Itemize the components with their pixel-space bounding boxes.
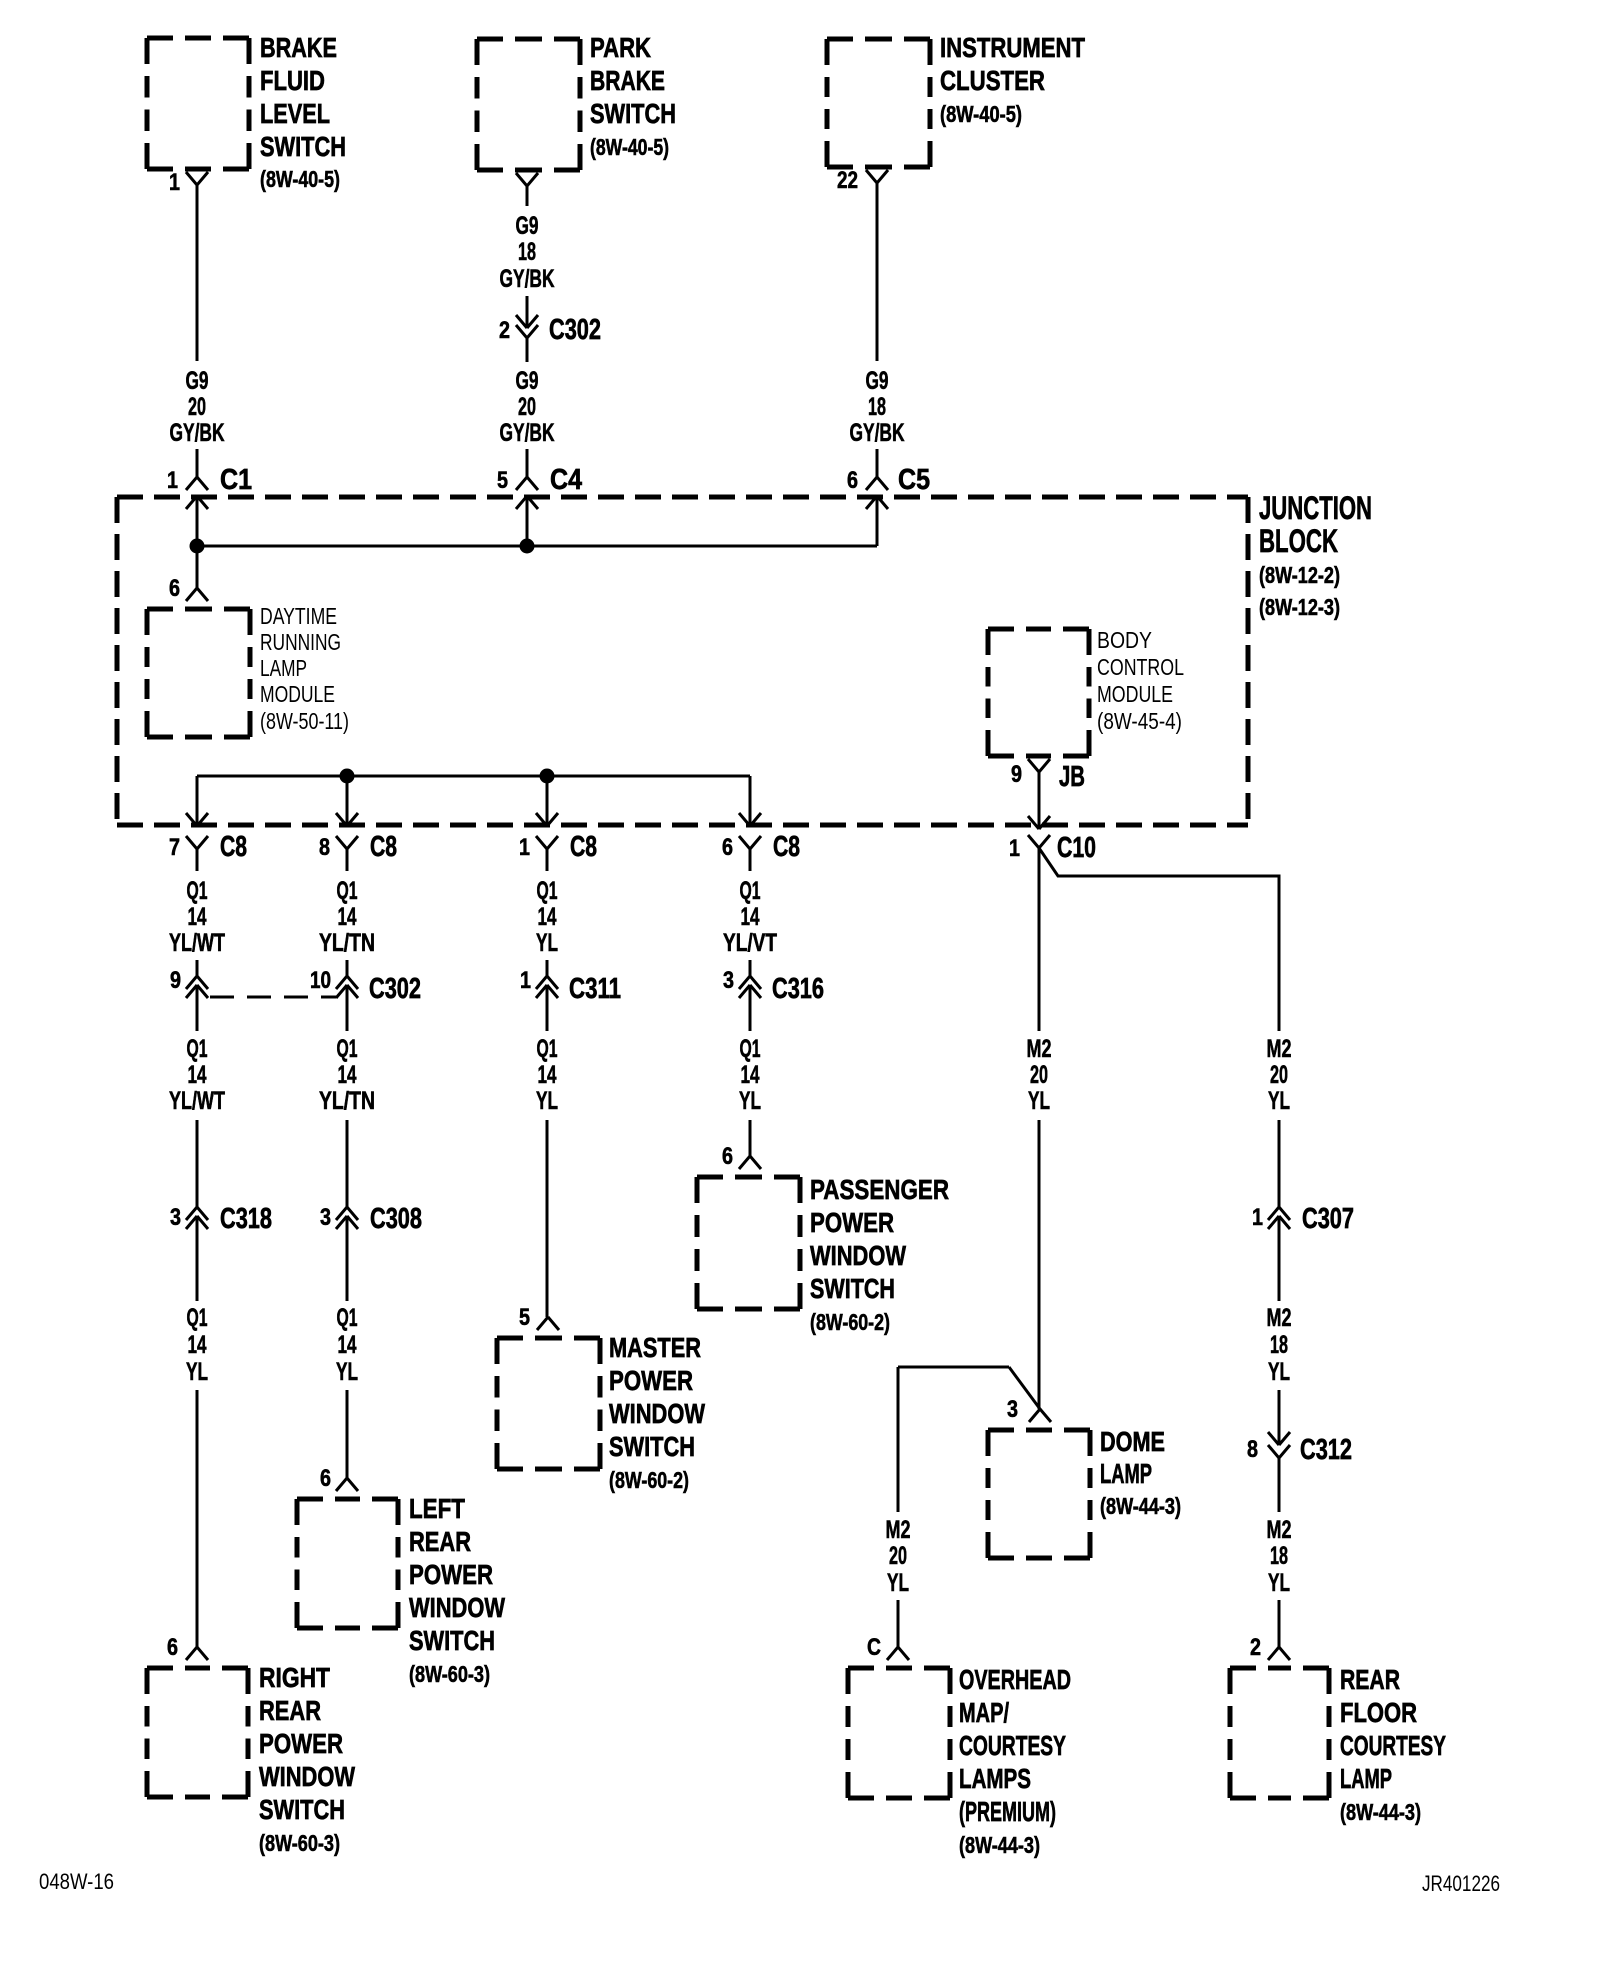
connector pin 2 of rear floor courtesy lamp: [1250, 1634, 1290, 1661]
svg-text:(8W-40-5): (8W-40-5): [260, 166, 340, 192]
label: body control module (8W-45-4): [1097, 627, 1184, 734]
wire: [346, 1120, 349, 1207]
wire: [546, 960, 549, 976]
svg-text:YL: YL: [536, 929, 558, 957]
svg-text:REAR: REAR: [259, 1695, 321, 1726]
svg-text:1: 1: [167, 467, 178, 494]
box: brake fluid level switch: [147, 38, 249, 169]
svg-text:POWER: POWER: [609, 1365, 693, 1396]
svg-text:YL: YL: [336, 1358, 358, 1386]
svg-text:2: 2: [499, 317, 510, 344]
arrow out of junction block (C8 pin 1): [536, 813, 558, 826]
box: left rear power window switch: [297, 1499, 398, 1628]
svg-text:YL: YL: [887, 1569, 909, 1597]
svg-text:20: 20: [518, 393, 536, 421]
label: left rear power window switch (8W-60-3): [409, 1493, 505, 1687]
svg-text:Q1: Q1: [337, 877, 358, 905]
wire: [1278, 1390, 1281, 1445]
arrow into junction block bottom border: [1028, 816, 1050, 829]
wire: [749, 776, 752, 826]
connector C8 pin 1: [519, 831, 597, 863]
in-line connector C307 pin 1: [1252, 1203, 1354, 1235]
connector pin 3 of dome lamp: [1007, 1396, 1051, 1423]
svg-text:YL/VT: YL/VT: [723, 929, 777, 957]
svg-text:BRAKE: BRAKE: [590, 65, 665, 96]
wire: [196, 449, 199, 477]
svg-text:LEFT: LEFT: [409, 1493, 465, 1524]
svg-text:REAR: REAR: [1340, 1664, 1400, 1695]
svg-text:C: C: [867, 1634, 881, 1661]
svg-text:(8W-60-2): (8W-60-2): [609, 1467, 689, 1493]
in-line connector C302 pin 2: [499, 314, 601, 346]
wire: [196, 185, 199, 361]
wire: [196, 849, 199, 871]
junction dot: [340, 769, 355, 784]
wire: [1278, 1216, 1281, 1301]
branch wire to rear lamps: [1039, 848, 1279, 1031]
label: overhead map/courtesy lamps (premium) (8W-44-3): [959, 1664, 1071, 1858]
wire: [876, 183, 879, 361]
svg-text:5: 5: [519, 1304, 530, 1331]
page code 048W-16: [39, 1869, 114, 1894]
svg-text:SWITCH: SWITCH: [810, 1273, 895, 1304]
wire: [526, 296, 529, 328]
label: brake fluid level switch (8W-40-5): [260, 32, 346, 192]
svg-text:14: 14: [741, 903, 760, 931]
svg-text:C4: C4: [550, 464, 582, 496]
svg-text:9: 9: [1011, 761, 1022, 788]
svg-text:20: 20: [1030, 1061, 1048, 1089]
wire: [196, 1216, 199, 1301]
junction dot: [540, 769, 555, 784]
wire: [526, 186, 529, 206]
svg-text:M2: M2: [1267, 1035, 1292, 1063]
wire: [898, 1366, 1009, 1369]
label: right rear power window switch (8W-60-3): [259, 1662, 355, 1856]
box: dome lamp: [988, 1430, 1090, 1558]
wire: [1038, 1120, 1041, 1409]
connector C5 pin 6 (junction block): [847, 464, 930, 509]
svg-text:Q1: Q1: [740, 877, 761, 905]
svg-text:048W-16: 048W-16: [39, 1869, 114, 1894]
svg-text:POWER: POWER: [259, 1728, 343, 1759]
svg-text:YL: YL: [1268, 1358, 1290, 1386]
svg-text:YL: YL: [1268, 1569, 1290, 1597]
connector of park brake switch: [516, 173, 538, 186]
svg-text:G9: G9: [516, 367, 539, 395]
wire label Q1 14 YL: [536, 877, 558, 957]
in-line connector pin 9: [170, 967, 208, 998]
svg-text:MODULE: MODULE: [1097, 681, 1173, 707]
svg-text:M2: M2: [1267, 1516, 1292, 1544]
svg-text:BODY: BODY: [1097, 627, 1152, 653]
connector C8 pin 6: [722, 831, 800, 863]
svg-text:SWITCH: SWITCH: [260, 131, 346, 162]
svg-text:C8: C8: [570, 831, 597, 863]
wire: [196, 776, 199, 826]
svg-text:OVERHEAD: OVERHEAD: [959, 1664, 1071, 1695]
svg-text:14: 14: [538, 1061, 557, 1089]
svg-text:6: 6: [847, 467, 858, 494]
wire label M2 20 YL: [1267, 1035, 1292, 1115]
svg-text:Q1: Q1: [537, 877, 558, 905]
in-line connector C312 pin 8: [1247, 1432, 1352, 1466]
svg-text:M2: M2: [1267, 1304, 1292, 1332]
wire: [196, 546, 199, 588]
label: park brake switch (8W-40-5): [590, 32, 676, 160]
wire: [546, 776, 549, 826]
svg-text:PASSENGER: PASSENGER: [810, 1174, 949, 1205]
svg-text:8: 8: [1247, 1436, 1258, 1463]
wire: [196, 496, 199, 546]
svg-text:20: 20: [188, 393, 206, 421]
in-line connector C316 pin 3: [723, 967, 824, 1005]
svg-text:6: 6: [722, 1143, 733, 1170]
svg-text:WINDOW: WINDOW: [810, 1240, 906, 1271]
wire: [346, 1216, 349, 1301]
box: master power window switch: [497, 1338, 600, 1469]
wire: [749, 1120, 752, 1156]
junction dot: [520, 539, 535, 554]
wire: [346, 1390, 349, 1478]
wire: [196, 1390, 199, 1647]
label: dome lamp (8W-44-3): [1100, 1426, 1181, 1519]
svg-text:POWER: POWER: [810, 1207, 894, 1238]
wire: [1038, 848, 1041, 1031]
wire: [1278, 1120, 1281, 1207]
connector pin 1 of brake fluid level switch: [169, 169, 208, 196]
svg-text:SWITCH: SWITCH: [409, 1625, 495, 1656]
svg-text:6: 6: [167, 1634, 178, 1661]
svg-text:C308: C308: [370, 1203, 422, 1235]
svg-text:18: 18: [518, 238, 536, 266]
svg-text:(8W-60-3): (8W-60-3): [409, 1661, 490, 1687]
svg-text:C8: C8: [773, 831, 800, 863]
svg-text:YL: YL: [536, 1087, 558, 1115]
svg-text:WINDOW: WINDOW: [409, 1592, 505, 1623]
svg-text:2: 2: [1250, 1634, 1261, 1661]
wire label G9 18 GY/BK: [500, 212, 555, 293]
wire: [526, 496, 529, 546]
svg-text:FLOOR: FLOOR: [1340, 1697, 1417, 1728]
svg-text:14: 14: [338, 903, 357, 931]
svg-text:MAP/: MAP/: [959, 1697, 1009, 1728]
wire label M2 18 YL: [1267, 1516, 1292, 1597]
svg-text:YL: YL: [739, 1087, 761, 1115]
svg-text:C307: C307: [1302, 1203, 1354, 1235]
wire label Q1 14 YL/TN: [319, 1035, 375, 1115]
svg-text:(8W-60-2): (8W-60-2): [810, 1309, 890, 1335]
connector pin 6 of daytime running lamp module: [169, 575, 208, 602]
svg-text:1: 1: [1252, 1204, 1263, 1231]
wire: [346, 776, 349, 826]
svg-text:MASTER: MASTER: [609, 1332, 701, 1363]
svg-text:3: 3: [170, 1204, 181, 1231]
wire: [196, 960, 199, 976]
svg-text:1: 1: [519, 834, 530, 861]
svg-text:SWITCH: SWITCH: [259, 1794, 345, 1825]
box: right rear power window switch: [147, 1668, 248, 1797]
bus wire (junction block internal, C8 feeds): [197, 775, 750, 778]
svg-text:BLOCK: BLOCK: [1259, 523, 1338, 559]
wire label M2 20 YL: [886, 1516, 911, 1597]
arrow out of junction block (C8 pin 7): [186, 813, 208, 826]
svg-text:C318: C318: [220, 1203, 272, 1235]
label: passenger power window switch (8W-60-2): [810, 1174, 949, 1335]
svg-text:(8W-45-4): (8W-45-4): [1097, 708, 1182, 734]
svg-text:14: 14: [188, 903, 207, 931]
svg-text:20: 20: [889, 1542, 907, 1570]
connector C8 pin 7: [169, 831, 247, 863]
connector pin 6 of right rear power window switch: [167, 1634, 208, 1661]
svg-text:8: 8: [319, 834, 330, 861]
label: rear floor courtesy lamp (8W-44-3): [1340, 1664, 1446, 1825]
svg-text:C316: C316: [772, 973, 824, 1005]
label: instrument cluster (8W-40-5): [940, 32, 1085, 127]
svg-text:DAYTIME: DAYTIME: [260, 603, 337, 629]
junction block label: [1259, 490, 1372, 620]
svg-text:Q1: Q1: [537, 1035, 558, 1063]
svg-text:YL/WT: YL/WT: [169, 1087, 225, 1115]
connector pin 22 of instrument cluster: [837, 167, 888, 194]
svg-text:WINDOW: WINDOW: [609, 1398, 705, 1429]
connector JB pin 9 of body control module: [1011, 759, 1085, 793]
svg-text:GY/BK: GY/BK: [500, 419, 555, 447]
svg-text:(8W-44-3): (8W-44-3): [1340, 1799, 1421, 1825]
box: body control module: [988, 629, 1089, 756]
svg-text:(8W-12-3): (8W-12-3): [1259, 594, 1340, 620]
wire: [1009, 1367, 1040, 1409]
svg-text:Q1: Q1: [187, 877, 208, 905]
svg-text:3: 3: [723, 967, 734, 994]
connector pin 6 of left rear power window switch: [320, 1465, 358, 1492]
svg-text:14: 14: [188, 1061, 207, 1089]
svg-text:LAMP: LAMP: [260, 655, 307, 681]
svg-text:(PREMIUM): (PREMIUM): [959, 1796, 1056, 1827]
svg-text:GY/BK: GY/BK: [500, 265, 555, 293]
wire label Q1 14 YL: [536, 1035, 558, 1115]
svg-text:YL/WT: YL/WT: [169, 929, 225, 957]
svg-text:(8W-44-3): (8W-44-3): [959, 1832, 1040, 1858]
wire label M2 20 YL: [1027, 1035, 1052, 1115]
svg-text:14: 14: [188, 1331, 207, 1359]
wire: [749, 849, 752, 871]
wire: [346, 960, 349, 976]
svg-text:SWITCH: SWITCH: [609, 1431, 695, 1462]
svg-text:YL: YL: [186, 1358, 208, 1386]
svg-text:C302: C302: [369, 973, 421, 1005]
svg-text:COURTESY: COURTESY: [959, 1730, 1066, 1761]
svg-text:18: 18: [868, 393, 886, 421]
svg-text:(8W-12-2): (8W-12-2): [1259, 562, 1340, 588]
svg-text:LAMPS: LAMPS: [959, 1763, 1031, 1794]
connector C4 pin 5 (junction block): [497, 464, 582, 509]
svg-text:BRAKE: BRAKE: [260, 32, 337, 63]
dashed jumper between pin 9 and pin 10 connectors: [210, 996, 336, 999]
svg-text:JB: JB: [1059, 761, 1085, 793]
label: daytime running lamp module (8W-50-11): [260, 603, 349, 734]
svg-text:LAMP: LAMP: [1340, 1763, 1392, 1794]
wire: [749, 960, 752, 976]
wire label Q1 14 YL: [739, 1035, 761, 1115]
svg-text:POWER: POWER: [409, 1559, 493, 1590]
wire: [346, 849, 349, 871]
svg-text:1: 1: [520, 967, 531, 994]
wire: [546, 849, 549, 871]
wire: [196, 1120, 199, 1207]
wire label G9 20 GY/BK: [500, 367, 555, 447]
svg-text:LEVEL: LEVEL: [260, 98, 330, 129]
arrow out of junction block (C8 pin 8): [336, 813, 358, 826]
svg-text:CONTROL: CONTROL: [1097, 654, 1184, 680]
svg-text:1: 1: [169, 169, 180, 196]
connector pin 6 of passenger power window switch: [722, 1143, 761, 1170]
svg-text:3: 3: [320, 1204, 331, 1231]
svg-text:FLUID: FLUID: [260, 65, 325, 96]
drawing number JR401226: [1422, 1871, 1500, 1896]
box: passenger power window switch: [697, 1177, 800, 1309]
in-line connector C318 pin 3: [170, 1203, 272, 1235]
svg-text:G9: G9: [516, 212, 539, 240]
svg-text:LAMP: LAMP: [1100, 1458, 1152, 1489]
svg-text:YL/TN: YL/TN: [319, 929, 375, 957]
arrow out of junction block (C8 pin 6): [739, 813, 761, 826]
box: instrument cluster: [827, 39, 930, 167]
junction dot: [190, 539, 205, 554]
svg-text:14: 14: [338, 1331, 357, 1359]
wire: [196, 985, 199, 1031]
svg-text:YL: YL: [1268, 1087, 1290, 1115]
svg-text:Q1: Q1: [187, 1304, 208, 1332]
connector pin C of overhead map/courtesy lamps: [867, 1634, 909, 1661]
svg-text:MODULE: MODULE: [260, 681, 335, 707]
svg-text:C5: C5: [898, 464, 930, 496]
svg-text:(8W-40-5): (8W-40-5): [590, 134, 669, 160]
svg-text:C8: C8: [370, 831, 397, 863]
svg-text:3: 3: [1007, 1396, 1018, 1423]
svg-text:C8: C8: [220, 831, 247, 863]
svg-text:9: 9: [170, 967, 181, 994]
svg-text:18: 18: [1270, 1331, 1288, 1359]
svg-text:14: 14: [538, 903, 557, 931]
in-line connector C308 pin 3: [320, 1203, 422, 1235]
wire label Q1 14 YL: [336, 1304, 358, 1386]
wire label Q1 14 YL: [186, 1304, 208, 1386]
svg-text:Q1: Q1: [740, 1035, 761, 1063]
in-line connector C302 pin 10: [310, 967, 421, 1005]
wire: [1278, 1458, 1281, 1512]
svg-text:COURTESY: COURTESY: [1340, 1730, 1446, 1761]
svg-text:M2: M2: [886, 1516, 911, 1544]
svg-text:WINDOW: WINDOW: [259, 1761, 355, 1792]
svg-text:RUNNING: RUNNING: [260, 629, 341, 655]
svg-text:6: 6: [722, 834, 733, 861]
connector C1 pin 1 (junction block): [167, 464, 252, 509]
svg-text:5: 5: [497, 467, 508, 494]
svg-text:20: 20: [1270, 1061, 1288, 1089]
bus wire (junction block internal, C1-C4-C5): [197, 545, 877, 548]
svg-text:YL: YL: [1028, 1087, 1050, 1115]
box: daytime running lamp module: [147, 609, 250, 737]
connector C8 pin 8: [319, 831, 397, 863]
svg-text:C1: C1: [220, 464, 252, 496]
svg-text:GY/BK: GY/BK: [850, 419, 905, 447]
wire: [1278, 1600, 1281, 1647]
svg-text:PARK: PARK: [590, 32, 651, 63]
svg-text:RIGHT: RIGHT: [259, 1662, 330, 1693]
box: rear floor courtesy lamp: [1230, 1668, 1329, 1798]
svg-text:YL/TN: YL/TN: [319, 1087, 375, 1115]
connector C10 pin 1 (junction block bottom): [1009, 832, 1096, 864]
svg-text:7: 7: [169, 834, 180, 861]
wire: [876, 449, 879, 477]
svg-text:14: 14: [338, 1061, 357, 1089]
wire label M2 18 YL: [1267, 1304, 1292, 1386]
svg-text:C312: C312: [1300, 1434, 1352, 1466]
connector pin 5 of master power window switch: [519, 1304, 559, 1331]
svg-text:GY/BK: GY/BK: [170, 419, 225, 447]
svg-text:REAR: REAR: [409, 1526, 471, 1557]
wire label Q1 14 YL/VT: [723, 877, 777, 957]
wire: [1038, 772, 1041, 829]
wire label G9 18 GY/BK: [850, 367, 905, 447]
svg-text:CLUSTER: CLUSTER: [940, 65, 1045, 96]
svg-text:18: 18: [1270, 1542, 1288, 1570]
wire: [897, 1367, 900, 1512]
wire: [876, 496, 879, 546]
wire: [526, 338, 529, 362]
svg-text:Q1: Q1: [337, 1035, 358, 1063]
svg-text:6: 6: [169, 575, 180, 602]
junction block dashed border (8W-12-2)(8W-12-3): [117, 497, 1248, 825]
svg-text:6: 6: [320, 1465, 331, 1492]
svg-text:JUNCTION: JUNCTION: [1259, 490, 1372, 526]
wire: [546, 985, 549, 1031]
wire: [526, 449, 529, 477]
svg-text:10: 10: [310, 967, 331, 994]
wire label Q1 14 YL/TN: [319, 877, 375, 957]
wire: [346, 985, 349, 1031]
svg-text:INSTRUMENT: INSTRUMENT: [940, 32, 1085, 63]
svg-text:(8W-44-3): (8W-44-3): [1100, 1493, 1181, 1519]
svg-text:1: 1: [1009, 835, 1020, 862]
svg-text:22: 22: [837, 167, 858, 194]
box: park brake switch: [477, 39, 580, 170]
wire: [897, 1600, 900, 1647]
svg-text:Q1: Q1: [187, 1035, 208, 1063]
svg-text:(8W-50-11): (8W-50-11): [260, 708, 349, 734]
svg-text:(8W-60-3): (8W-60-3): [259, 1830, 340, 1856]
svg-text:C10: C10: [1057, 832, 1096, 864]
svg-text:DOME: DOME: [1100, 1426, 1165, 1457]
svg-text:G9: G9: [186, 367, 209, 395]
svg-text:JR401226: JR401226: [1422, 1871, 1500, 1896]
svg-text:C302: C302: [549, 314, 601, 346]
in-line connector C311 pin 1: [520, 967, 621, 1005]
wire: [749, 985, 752, 1031]
svg-text:M2: M2: [1027, 1035, 1052, 1063]
wire label Q1 14 YL/WT: [169, 1035, 225, 1115]
svg-text:(8W-40-5): (8W-40-5): [940, 101, 1022, 127]
svg-text:14: 14: [741, 1061, 760, 1089]
wire: [546, 1120, 549, 1317]
box: overhead map/courtesy lamps (premium): [848, 1668, 950, 1798]
wire label G9 20 GY/BK: [170, 367, 225, 447]
svg-text:G9: G9: [866, 367, 889, 395]
svg-text:SWITCH: SWITCH: [590, 98, 676, 129]
svg-text:C311: C311: [569, 973, 621, 1005]
label: master power window switch (8W-60-2): [609, 1332, 705, 1493]
